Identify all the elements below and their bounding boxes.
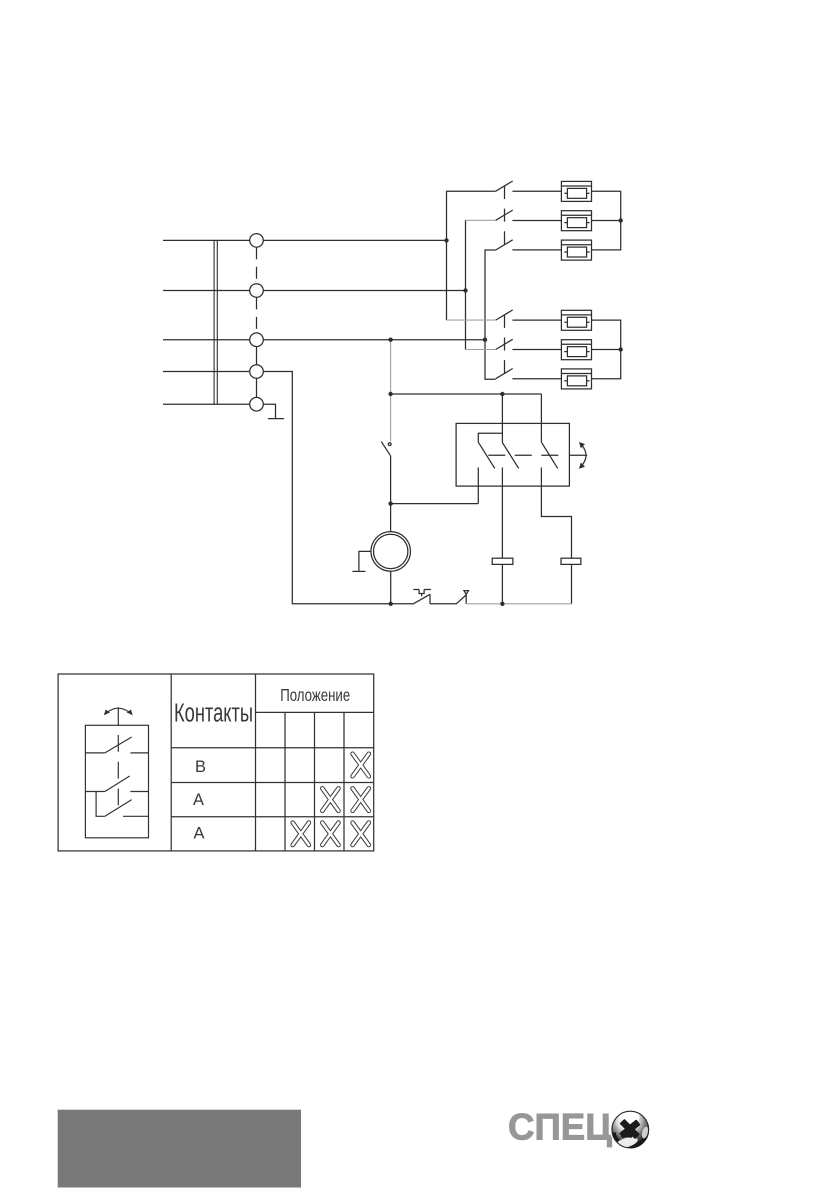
ground motor [359,551,371,571]
x mark A2c3 [322,788,338,810]
wire to EK6 [512,378,561,380]
contact K3 blade [541,442,557,468]
motor M outer [371,532,411,572]
ground PE1 [268,418,284,420]
wire R1 bottom [501,564,503,603]
wire to EK4 [512,319,561,321]
wire bus grey [466,603,571,605]
node L3-C [483,338,487,342]
switch S2.2 blade [496,339,513,349]
thermal symbol [413,590,431,597]
terminal X3 [250,333,264,347]
thermal switch SK blade [413,594,430,604]
wire to EK1 [512,190,561,192]
resistor R2 [561,558,581,564]
wire rotation stem [569,454,587,456]
switch S1.1 blade [496,181,513,191]
symbol contact 1 [85,752,105,754]
table v2 [255,674,257,851]
node motor bus [389,602,393,606]
wire R2 bottom [571,564,573,603]
wire mid horizontal [391,503,479,505]
logo ball rim [612,1111,649,1148]
switch SQ blade [456,595,466,604]
heater EK1 [561,181,591,201]
wire drop to blade2 [501,394,503,443]
resistor R1 [492,558,513,564]
wire feed g2r2 grey [466,349,496,351]
wire collector group1 [592,191,621,250]
switch SA manual contact [388,443,391,446]
wire L5 earth rail [163,404,276,418]
svg-text:А: А [194,825,205,843]
table h row1 [171,782,374,784]
symbol contact 2 [85,791,105,793]
wire feeder B vertical [465,220,467,349]
table col line c [343,712,345,851]
contact K2 lower stub [501,468,503,559]
wire L3 phase rail 3 [163,339,485,341]
node rotary top [388,392,392,396]
terminal X4 [250,365,264,379]
table h subheader [171,747,374,749]
wire feeder A vertical [447,191,496,320]
wire chain c3-c4 [256,347,258,365]
contact K3 lower stub [541,468,571,559]
logo ball [612,1110,649,1150]
svg-text:СПЕЦ: СПЕЦ [508,1107,612,1148]
symbol stem [117,707,119,725]
x mark A3c4 [353,823,369,845]
wire L2 phase rail 2 [163,290,466,292]
wire L1 phase rail 1 [163,239,447,241]
x mark A3c3 [322,823,338,845]
symbol rotation arrow [107,708,130,713]
switch S2.1 blade [496,310,513,320]
svg-text:В: В [195,758,206,776]
wire gamma inside box [478,433,502,442]
contact K1 lower stub [477,468,479,504]
contact K2 blade [502,443,518,469]
node group1 collector [619,218,623,222]
wire feeder C vertical [485,250,496,379]
heater EK5 [561,340,591,360]
table col line a [284,712,286,851]
wire to EK3 [512,249,561,251]
wire EK5 out [592,349,621,351]
wire bus mid [430,603,456,605]
wire feed g1r2 grey [466,219,496,221]
heater EK4 [561,310,591,330]
linkage rotary dashed [488,454,559,456]
node group2 collector [619,347,623,351]
svg-text:А: А [193,791,204,809]
wire motor drop [390,504,392,532]
logo screw cross [619,1119,641,1140]
wire feed g2r1 grey [447,319,496,321]
logo ball halo [610,1109,651,1150]
node mid [388,501,392,505]
terminal X1 [250,234,264,248]
symbol contact 3 bracket [96,792,105,817]
terminal X5 [250,397,264,411]
heater EK2 [561,211,591,231]
linkage group1 dashed [504,186,506,244]
symbol box [85,725,148,838]
wire to EK2 [512,220,561,222]
wire EK2 out [592,220,621,222]
x mark B4 [353,754,369,776]
wire collector group2 [592,320,621,379]
terminal X2 [250,284,264,298]
cable bundle double bar [213,240,215,404]
X marks [293,754,369,845]
svg-text:Положение: Положение [280,685,350,705]
table symbol group [85,707,148,838]
table h row2 [171,816,374,818]
motor M inner [374,534,408,568]
rotary switch box SA1 [456,423,569,486]
table h position underline [256,711,374,713]
table texts [174,685,350,843]
wire drop to blade3 [540,394,542,442]
table block [58,674,374,851]
wire chain c4-c5 [256,378,258,397]
node L1-A [444,238,448,242]
x mark A3c2 [293,823,309,845]
switch S1.3 blade [496,240,513,250]
wire chain dashed c2-c3 [256,297,258,332]
heater EK6 [561,369,591,389]
rotation arrow [582,445,586,466]
node L2-B [463,288,467,292]
contact K1 blade [478,442,495,468]
node L3 drop [388,338,392,342]
table col line b [314,712,316,851]
wire to EK5 [512,349,561,351]
footer grey box [58,1110,301,1188]
table v1 [170,674,172,851]
node bus R1 [500,602,504,606]
switch S2.3 blade [496,369,513,379]
wire L4 neutral rail [163,372,413,604]
wire motor to bus [390,571,392,604]
heater EK3 [561,240,591,260]
node blade2 top [500,392,504,396]
wire L3 drop grey [390,340,392,442]
svg-text:Контакты: Контакты [174,699,253,727]
linkage group2 dashed [504,315,506,373]
switch S1.2 blade [496,210,513,220]
symbol linkage dashed [117,735,119,808]
heater boxes group [561,181,591,389]
wire chain dashed c1-c2 [256,247,258,283]
x mark A2c4 [353,788,369,810]
wire top of rotary [391,393,542,395]
table frame [58,674,374,851]
